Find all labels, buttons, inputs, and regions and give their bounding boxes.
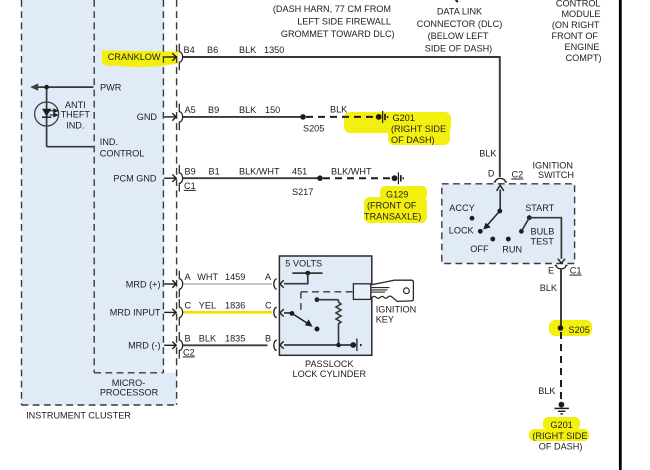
LED D1 circle — [35, 102, 59, 126]
svg-text:(ON RIGHT: (ON RIGHT — [552, 20, 600, 30]
svg-text:G129: G129 — [386, 190, 408, 200]
svg-text:IGNITION: IGNITION — [376, 304, 417, 314]
svg-text:BULB: BULB — [531, 226, 555, 236]
cluster connector MRD INPUT — [164, 299, 182, 326]
svg-text:SWITCH: SWITCH — [538, 170, 574, 180]
wiper arrowhead — [305, 319, 313, 326]
wire PWR — [33, 86, 93, 88]
svg-text:COMPT): COMPT) — [566, 53, 602, 63]
svg-text:D: D — [488, 169, 495, 179]
cluster connector GND — [164, 104, 182, 131]
svg-text:LEFT SIDE FIREWALL: LEFT SIDE FIREWALL — [297, 17, 391, 27]
svg-text:BLK: BLK — [239, 105, 256, 115]
svg-text:C: C — [185, 301, 192, 311]
svg-text:PROCESSOR: PROCESSOR — [100, 387, 159, 397]
key blade ridges — [371, 288, 390, 293]
arrow E down — [558, 259, 565, 264]
svg-text:B4: B4 — [184, 45, 195, 55]
svg-text:WHT: WHT — [197, 272, 218, 282]
highlight CRANKLOW — [102, 51, 178, 68]
svg-text:S217: S217 — [292, 187, 313, 197]
svg-text:(RIGHT SIDE: (RIGHT SIDE — [391, 124, 446, 134]
wire junction to resistor — [317, 299, 339, 301]
svg-text:TEST: TEST — [531, 236, 555, 246]
svg-text:PASSLOCK: PASSLOCK — [305, 359, 354, 369]
svg-text:CONTROL: CONTROL — [556, 0, 601, 8]
wire E BLK solid — [560, 269, 562, 328]
svg-text:LOCK: LOCK — [449, 226, 474, 236]
black border line right — [619, 0, 622, 470]
svg-text:E: E — [548, 266, 554, 276]
passlock lock cylinder box — [279, 256, 371, 355]
svg-text:PCM GND: PCM GND — [113, 174, 157, 184]
svg-text:BLK/WHT: BLK/WHT — [239, 166, 280, 176]
svg-text:5 VOLTS: 5 VOLTS — [285, 259, 322, 269]
svg-text:IGNITION: IGNITION — [532, 160, 573, 170]
svg-text:C2: C2 — [512, 169, 524, 179]
junction dot PWR — [44, 85, 49, 90]
svg-text:(RIGHT SIDE: (RIGHT SIDE — [532, 431, 587, 441]
wiper pivot dot — [290, 311, 295, 316]
wire 5v to A pin — [284, 273, 308, 284]
svg-text:BLK: BLK — [538, 386, 555, 396]
contact dot START — [527, 215, 532, 220]
passlock connector C — [274, 307, 277, 317]
svg-text:MRD INPUT: MRD INPUT — [110, 308, 161, 318]
svg-text:IND.: IND. — [66, 120, 84, 130]
svg-text:PWR: PWR — [100, 83, 122, 93]
cluster connector MRD- — [164, 332, 182, 359]
resistor R1 — [336, 300, 341, 345]
cluster connector CRANKLOW — [164, 44, 182, 71]
svg-text:KEY: KEY — [376, 314, 394, 324]
svg-text:GROMMET TOWARD DLC): GROMMET TOWARD DLC) — [281, 29, 395, 39]
contact dot RUN — [506, 237, 511, 242]
contact dot OFF — [490, 237, 495, 242]
svg-text:START: START — [525, 203, 554, 213]
svg-text:DATA LINK: DATA LINK — [437, 7, 482, 17]
lever arrowhead — [483, 223, 491, 230]
svg-text:FRONT OF: FRONT OF — [552, 31, 599, 41]
arrow D up into switch — [497, 185, 504, 191]
key hole — [404, 288, 410, 294]
svg-text:B1: B1 — [209, 166, 220, 176]
svg-text:150: 150 — [265, 105, 280, 115]
cluster connector PCM GND — [164, 165, 182, 192]
ignition switch dashed border — [442, 184, 575, 264]
resistor bottom junction dot — [336, 343, 341, 348]
ground G201 splice symbol — [376, 111, 388, 123]
instrument cluster dashed border — [22, 0, 177, 405]
svg-text:OF DASH): OF DASH) — [391, 135, 435, 145]
arrow B left — [280, 341, 284, 349]
svg-text:BLK: BLK — [199, 334, 216, 344]
wiper lever arm — [292, 313, 308, 323]
key linkage dashed — [301, 292, 354, 313]
svg-text:ANTI: ANTI — [65, 100, 86, 110]
microprocessor dashed border — [94, 0, 163, 373]
svg-text:LOCK CYLINDER: LOCK CYLINDER — [293, 369, 367, 379]
svg-text:MRD (+): MRD (+) — [126, 279, 161, 289]
LED triangle — [42, 109, 51, 117]
svg-text:451: 451 — [292, 166, 307, 176]
svg-text:S205: S205 — [303, 123, 324, 133]
5 volts tee — [292, 272, 322, 274]
contact dot LOCK — [478, 229, 483, 234]
wire LED vertical — [46, 87, 48, 147]
svg-text:SIDE OF DASH): SIDE OF DASH) — [425, 44, 492, 54]
svg-text:TRANSAXLE): TRANSAXLE) — [364, 212, 421, 222]
svg-text:(DASH HARN, 77 CM FROM: (DASH HARN, 77 CM FROM — [273, 4, 391, 14]
connector E C1 arc — [555, 265, 568, 269]
svg-text:A5: A5 — [185, 105, 196, 115]
connector D C2 arc — [494, 178, 507, 182]
highlight S205 — [549, 320, 592, 336]
svg-text:C2: C2 — [183, 347, 195, 357]
svg-text:BLK: BLK — [330, 104, 347, 114]
svg-text:B6: B6 — [207, 45, 218, 55]
svg-text:A: A — [185, 272, 192, 282]
svg-text:C: C — [265, 301, 272, 311]
splice ground in passlock — [350, 339, 360, 352]
wire PCM GND BLK/WHT 451 solid — [183, 177, 320, 179]
svg-text:B: B — [265, 334, 271, 344]
wire START to E — [529, 218, 561, 259]
svg-text:GND: GND — [137, 112, 158, 122]
svg-text:YEL: YEL — [199, 301, 216, 311]
anti theft indicator LED circuit wires — [33, 87, 93, 147]
svg-text:OFF: OFF — [470, 244, 489, 254]
wire D to pivot — [499, 190, 501, 212]
svg-text:BLK: BLK — [540, 283, 557, 293]
arrow A left — [280, 280, 284, 288]
svg-text:1459: 1459 — [225, 272, 245, 282]
wire GND dashed to G201 — [306, 116, 374, 118]
svg-text:BLK/WHT: BLK/WHT — [331, 167, 372, 177]
wire PCM GND dashed to G129 — [323, 177, 390, 179]
svg-text:CONTROL: CONTROL — [100, 149, 145, 159]
contact dot ACCY — [470, 216, 475, 221]
instrument cluster fill — [22, 0, 177, 405]
splice S217 — [317, 175, 323, 181]
wire MRD INPUT YEL 1836 — [183, 311, 272, 314]
svg-text:(FRONT OF: (FRONT OF — [367, 201, 417, 211]
wire BLK dashed to G201 — [560, 332, 562, 400]
ground G201 earth symbol — [554, 402, 569, 414]
ignition switch pivot dot — [497, 209, 502, 214]
LED cathode bar — [42, 116, 51, 118]
svg-text:BLK: BLK — [479, 149, 496, 159]
svg-text:B: B — [185, 334, 191, 344]
svg-text:CRANKLOW: CRANKLOW — [108, 52, 161, 62]
svg-text:A: A — [265, 272, 272, 282]
highlight G201 bottom — [543, 417, 580, 430]
wire B row inside box — [284, 344, 352, 346]
svg-text:MICRO-: MICRO- — [112, 378, 145, 388]
svg-text:B9: B9 — [185, 166, 196, 176]
svg-text:C1: C1 — [184, 181, 196, 191]
svg-text:C1: C1 — [570, 266, 582, 276]
svg-text:MRD (-): MRD (-) — [128, 341, 160, 351]
highlight G201 right side of dash — [344, 112, 451, 133]
svg-text:THEFT: THEFT — [61, 109, 91, 119]
arrow PWR left — [30, 83, 38, 90]
wire START to BULB TEST — [521, 218, 529, 232]
LED emission arrows — [50, 109, 58, 117]
ignition switch fill — [442, 184, 575, 264]
passlock connector B — [274, 340, 277, 350]
wire MRD+ WHT 1459 — [183, 283, 272, 285]
svg-text:RUN: RUN — [502, 245, 522, 255]
svg-text:1836: 1836 — [225, 301, 245, 311]
resistor junction dot — [315, 297, 320, 302]
svg-text:ACCY: ACCY — [449, 203, 474, 213]
ignition switch lever to LOCK — [487, 211, 500, 226]
ground G129 splice symbol — [392, 172, 404, 184]
contact dot BULB TEST — [519, 229, 524, 234]
connector gap strip — [164, 0, 176, 373]
wire CRANKLOW BLK 1350 — [183, 57, 500, 177]
svg-text:G201: G201 — [393, 113, 415, 123]
svg-text:S205: S205 — [569, 325, 590, 335]
wiper contact dot — [315, 327, 320, 332]
key entry box — [353, 284, 371, 300]
svg-text:1835: 1835 — [225, 334, 245, 344]
cluster connector MRD+ — [164, 271, 182, 298]
svg-text:OF DASH): OF DASH) — [539, 441, 583, 451]
svg-text:INSTRUMENT CLUSTER: INSTRUMENT CLUSTER — [26, 411, 131, 421]
svg-text:BLK: BLK — [239, 45, 256, 55]
svg-text:1350: 1350 — [264, 45, 284, 55]
wire MRD- BLK 1835 — [183, 344, 268, 346]
svg-text:IND.: IND. — [100, 137, 118, 147]
splice S205 — [300, 114, 306, 120]
ignition key outline — [371, 280, 414, 301]
svg-text:ENGINE: ENGINE — [565, 42, 600, 52]
svg-text:G201: G201 — [550, 420, 572, 430]
tick mark top — [456, 0, 458, 2]
wire GND BLK 150 solid — [183, 116, 303, 118]
passlock connector A — [274, 279, 277, 289]
splice S205 dot — [558, 325, 564, 331]
wire C row to wiper pivot — [284, 312, 292, 314]
arrow C left — [280, 309, 284, 317]
svg-text:(BELOW LEFT: (BELOW LEFT — [428, 31, 489, 41]
wire IND CONTROL — [47, 146, 94, 148]
highlight G129 front of transaxle — [380, 186, 427, 200]
svg-text:MODULE: MODULE — [561, 9, 600, 19]
svg-text:B9: B9 — [208, 105, 219, 115]
svg-text:CONNECTOR (DLC): CONNECTOR (DLC) — [417, 19, 503, 29]
